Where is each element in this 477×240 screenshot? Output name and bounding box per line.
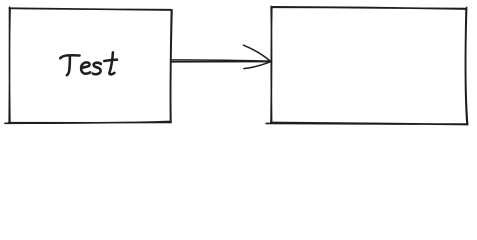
wire top edge — [271, 7, 466, 9]
letter t — [109, 52, 114, 74]
arrowhead lower barb — [244, 62, 271, 69]
wire left edge — [8, 7, 11, 122]
wire bottom edge — [266, 123, 467, 125]
letter T — [60, 55, 79, 58]
wire top edge — [9, 8, 171, 10]
wire bottom edge — [5, 121, 171, 123]
arrow connector — [171, 45, 270, 68]
wire right edge — [170, 10, 172, 122]
letter s — [93, 63, 101, 74]
label Test — [60, 52, 117, 75]
box right (rectangle) — [266, 7, 467, 125]
arrowhead upper barb — [243, 45, 270, 61]
wire left edge — [270, 7, 273, 123]
wire arrow shaft — [171, 60, 270, 62]
letter e — [81, 62, 90, 73]
wire right edge — [465, 7, 467, 124]
box left (rectangle) — [5, 7, 172, 123]
